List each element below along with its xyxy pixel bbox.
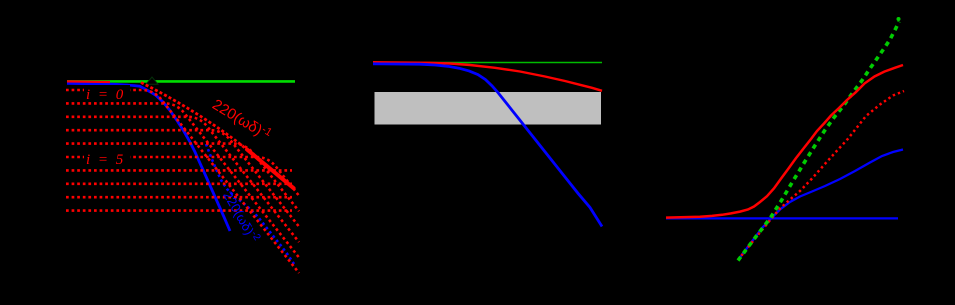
green DC resistance line <box>67 80 295 83</box>
black triangle marker on green line <box>146 77 158 84</box>
red gentle rolloff curve <box>373 62 602 91</box>
red dotted mode curve i=3 <box>66 130 299 226</box>
gray band <box>375 92 602 125</box>
blue dotted reference line (omega^-2) <box>206 144 294 264</box>
label mask i=0 <box>84 85 130 101</box>
red thick envelope end segment <box>247 150 294 189</box>
label 220(omega delta)^-2 (blue, rotated) <box>220 188 262 245</box>
red dotted mode curve i=6 <box>66 169 292 172</box>
red dotted mode curve i=7 <box>66 183 292 186</box>
red dotted mode curve i=4 <box>66 144 299 212</box>
red dotted mode curve i=8 <box>66 196 292 199</box>
red solid S curve <box>666 65 903 218</box>
blue steep rolloff curve <box>373 64 602 227</box>
red solid curve start (overlaps green) <box>67 80 110 83</box>
red dotted mode curve i=2 <box>66 117 299 242</box>
red dotted mode curve i=5 <box>66 157 299 196</box>
svg-text:i = 0: i = 0 <box>86 87 125 103</box>
left panel: log-log impedance plot <box>66 77 299 273</box>
red dotted mode curve i=0 <box>66 90 299 273</box>
blue horizontal line <box>666 217 898 219</box>
green horizontal line <box>373 62 602 64</box>
green dashed line <box>738 22 899 261</box>
red dotted curve <box>738 91 904 260</box>
label 220(omega delta)^-1 <box>209 95 274 144</box>
blue ascending curve <box>738 150 903 261</box>
blue solid curve <box>67 83 230 231</box>
label mask i=5 <box>84 150 130 166</box>
red dotted mode curve i=1 <box>66 103 299 257</box>
red dotted envelope line (omega^-1) <box>141 83 247 150</box>
middle panel <box>373 62 602 226</box>
red dotted mode curve i=9 <box>66 209 292 212</box>
right panel <box>666 17 904 261</box>
green line end dot <box>897 17 901 21</box>
svg-text:i = 5: i = 5 <box>86 152 125 168</box>
